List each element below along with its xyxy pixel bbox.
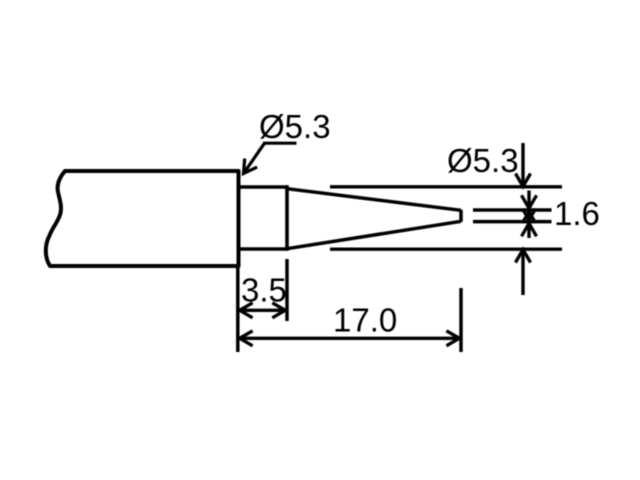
dia5.3 dim upper stem — [521, 143, 524, 185]
handle body outline with wavy break edge — [46, 171, 239, 266]
upper reference line (dia 5.3 extension) — [330, 185, 562, 188]
1.6 dim lower arrowhead (up) — [522, 223, 537, 236]
lower reference line (dia 5.3 extension) — [330, 247, 562, 250]
3.5 right arrowhead — [272, 303, 285, 318]
cone bottom edge — [287, 221, 461, 248]
1.6 inner stem — [527, 209, 530, 223]
leader underline — [263, 142, 297, 145]
leader arrowhead — [244, 159, 258, 174]
svg-text:Ø5.3: Ø5.3 — [259, 108, 331, 145]
cone top edge — [287, 189, 461, 211]
cone base line — [285, 185, 289, 251]
extension line at tip end — [459, 288, 463, 352]
tip upper line (1.6 extension) — [473, 208, 552, 212]
17.0 dim line — [240, 337, 460, 340]
3.5 dim line — [240, 309, 286, 312]
3.5 left arrowhead — [240, 303, 253, 318]
svg-text:17.0: 17.0 — [333, 302, 397, 339]
dia5.3 dim lower arrowhead (up) — [516, 250, 531, 263]
collar top line — [239, 185, 288, 189]
svg-text:Ø5.3: Ø5.3 — [447, 142, 519, 179]
17.0 right arrowhead — [446, 331, 459, 346]
tip lower line (1.6 extension) — [473, 220, 552, 224]
extension line at handle edge — [236, 268, 240, 352]
dia5.3 dim upper arrowhead (down) — [516, 174, 531, 187]
leader diagonal — [244, 143, 265, 173]
cone tip face — [459, 210, 463, 222]
17.0 left arrowhead — [240, 331, 253, 346]
1.6 dim upper arrowhead (down) — [522, 195, 537, 208]
dia5.3 dim lower stem — [521, 250, 524, 295]
collar bottom line — [239, 247, 288, 251]
1.6 inner arrowhead up — [523, 212, 536, 223]
1.6 dim lower stem — [527, 225, 530, 239]
1.6 dim upper stem — [527, 191, 530, 208]
extension line at cone base — [285, 259, 289, 321]
svg-text:1.6: 1.6 — [554, 195, 600, 232]
svg-text:3.5: 3.5 — [241, 272, 287, 309]
1.6 inner arrowhead down — [523, 209, 536, 220]
